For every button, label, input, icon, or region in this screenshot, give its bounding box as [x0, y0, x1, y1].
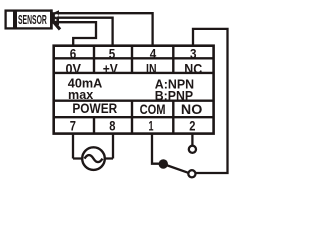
- svg-text:8: 8: [109, 118, 115, 134]
- column line 7/8 bottom: [93, 117, 95, 133]
- svg-text:0V: 0V: [65, 61, 81, 76]
- svg-text:COM: COM: [140, 102, 166, 117]
- connector wedge pin 1: [52, 10, 59, 16]
- switch lever: [163, 164, 188, 173]
- svg-text:2: 2: [189, 118, 195, 134]
- svg-text:IN: IN: [146, 61, 157, 76]
- svg-text:4: 4: [150, 47, 157, 62]
- row line under terminal numbers: [54, 57, 214, 59]
- svg-text:+V: +V: [103, 61, 118, 76]
- connector plug bar: [50, 9, 52, 27]
- svg-text:max: max: [68, 87, 94, 102]
- wire terminal 2 down: [191, 135, 193, 146]
- svg-text:3: 3: [190, 47, 197, 62]
- wire black to terminal 5: [57, 18, 113, 46]
- wire blue to terminal 6: [57, 22, 97, 45]
- NO contact circle: [189, 146, 196, 153]
- svg-text:5: 5: [109, 47, 116, 62]
- connector cable tail: [54, 22, 60, 29]
- switch pole dot: [159, 159, 168, 168]
- wire terminal 7 down: [72, 135, 74, 159]
- row line under signal labels: [54, 72, 214, 74]
- svg-text:1: 1: [149, 118, 154, 134]
- column line 4/3 top: [172, 46, 174, 73]
- terminal block outer frame: [54, 46, 214, 134]
- sensor internal divider: [13, 11, 17, 29]
- switch throw contact circle: [188, 170, 195, 177]
- AC source G1 circle: [82, 147, 105, 170]
- wire terminal 1 to switch pole: [152, 135, 160, 164]
- svg-text:7: 7: [70, 118, 76, 134]
- svg-text:SENSOR: SENSOR: [18, 12, 47, 27]
- sensor body U1: [6, 11, 52, 29]
- column line 5/4 top: [131, 46, 133, 73]
- row line under ratings: [54, 99, 214, 101]
- wire brown to terminal 4: [57, 13, 153, 45]
- wire terminal 3 to switch contact: [193, 29, 228, 173]
- wire across AC source: [73, 157, 113, 159]
- connector wedge pin 3: [52, 19, 59, 25]
- column line 8/1 bottom: [131, 101, 133, 134]
- svg-text:NO: NO: [181, 102, 202, 117]
- svg-text:B:PNP: B:PNP: [155, 88, 194, 103]
- AC source sine wave: [85, 155, 103, 162]
- svg-text:POWER: POWER: [72, 101, 117, 116]
- column line 6/5 top: [93, 46, 95, 73]
- connector notch: [55, 14, 58, 17]
- connector wedge pin 2: [52, 15, 59, 21]
- column line 1/2 bottom: [172, 101, 174, 134]
- wire terminal 8 down: [112, 135, 114, 159]
- svg-text:NC: NC: [184, 61, 202, 76]
- svg-text:6: 6: [70, 47, 77, 62]
- row line under POWER: [54, 116, 214, 118]
- connector body fill: [52, 12, 55, 24]
